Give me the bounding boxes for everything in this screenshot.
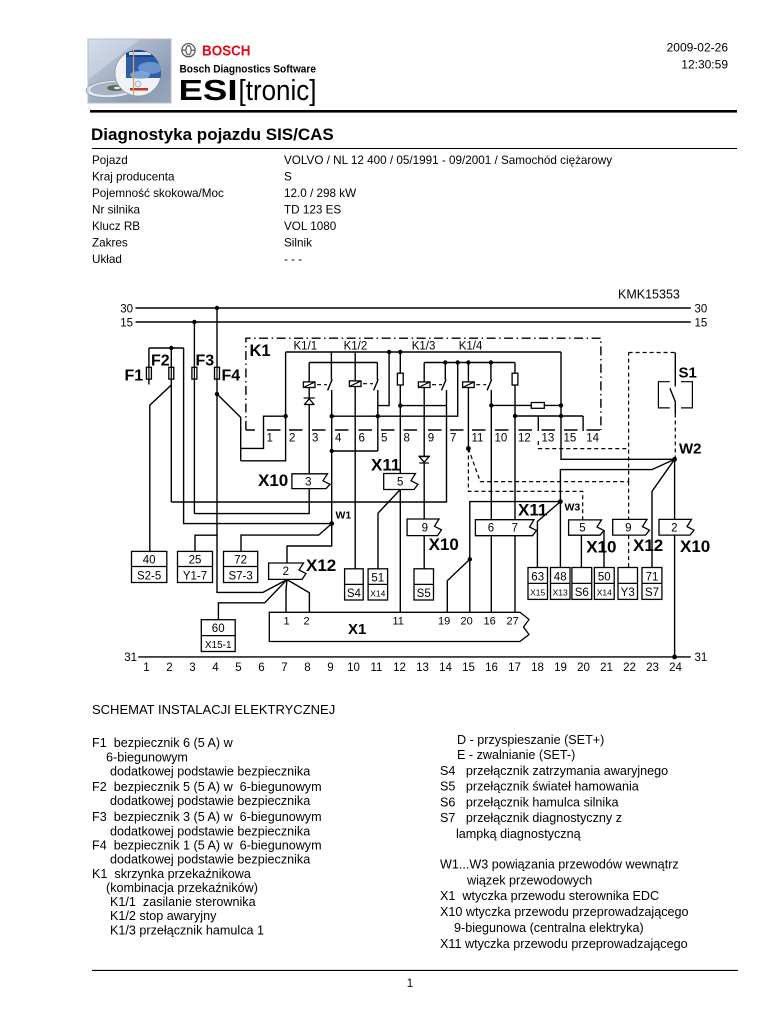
svg-text:X12: X12 xyxy=(306,556,336,575)
svg-text:BOSCH: BOSCH xyxy=(202,43,251,60)
svg-text:1: 1 xyxy=(267,433,273,445)
relay K1/1 contact xyxy=(286,352,333,416)
svg-text:3: 3 xyxy=(312,433,318,445)
wire rail B xyxy=(332,363,458,417)
svg-text:10: 10 xyxy=(495,433,508,445)
svg-text:12: 12 xyxy=(393,662,406,674)
node bus 31 xyxy=(672,655,677,660)
wire fan X12-2 to X1 pin 1 xyxy=(286,580,287,613)
svg-text:25: 25 xyxy=(189,555,202,567)
svg-text:[tronic]: [tronic] xyxy=(239,75,317,107)
svg-text:12: 12 xyxy=(518,433,531,445)
wire dashed pin 13 to S1 xyxy=(538,353,675,482)
svg-text:W1: W1 xyxy=(336,510,352,522)
wire pin 1 loop xyxy=(241,416,286,448)
wire flag X10-5 vertex to box 50 xyxy=(603,531,605,568)
svg-text:1: 1 xyxy=(284,615,290,627)
FOOTER xyxy=(92,969,738,971)
svg-text:S7 przełącznik diagnostyczny: S7 przełącznik diagnostyczny z xyxy=(440,811,622,825)
svg-text:F1: F1 xyxy=(125,368,144,385)
flag X10-3 xyxy=(292,474,330,489)
svg-text:K1/2: K1/2 xyxy=(344,341,368,353)
wire F2 line down to pin7 horizontal xyxy=(170,385,172,502)
svg-text:S2-5: S2-5 xyxy=(137,570,161,582)
svg-text:S4 przełącznik zatrzymania a: S4 przełącznik zatrzymania awaryjnego xyxy=(440,764,668,778)
flag X10-2 xyxy=(659,519,694,535)
svg-text:X10: X10 xyxy=(586,538,616,557)
component box 63 X15 xyxy=(528,568,548,600)
svg-text:D - przyspieszanie (SET+): D - przyspieszanie (SET+) xyxy=(457,733,604,747)
svg-text:14: 14 xyxy=(586,433,599,445)
svg-text:63: 63 xyxy=(531,571,544,583)
svg-text:16: 16 xyxy=(485,662,498,674)
svg-text:K1/1 zasilanie sterownika: K1/1 zasilanie sterownika xyxy=(110,895,256,909)
resistor pin 12 leg xyxy=(512,363,518,613)
svg-text:9: 9 xyxy=(422,522,428,534)
HEADER_TEXT xyxy=(179,41,729,108)
wire pin 9 diode chain xyxy=(418,456,430,569)
diode K1/1 xyxy=(304,398,315,405)
svg-text:Pojazd: Pojazd xyxy=(92,154,128,167)
wire pin 10 through flag X11-6 to X1 pin 16 xyxy=(490,536,492,613)
HEADER_PHOTO xyxy=(85,39,171,103)
svg-text:11: 11 xyxy=(472,433,484,445)
component box 51 X14 xyxy=(368,569,388,600)
svg-text:9: 9 xyxy=(428,433,434,445)
svg-text:S4: S4 xyxy=(347,588,362,600)
component box 71 S7 xyxy=(642,568,662,600)
svg-text:X15: X15 xyxy=(530,588,545,598)
svg-text:K1/3 przełącznik hamulca 1: K1/3 przełącznik hamulca 1 xyxy=(110,924,264,938)
svg-text:7: 7 xyxy=(450,433,456,445)
component box 72 S7-3 xyxy=(224,551,258,582)
wire F4 down between boxes to X12 fan xyxy=(217,394,287,592)
svg-text:30: 30 xyxy=(120,303,133,315)
svg-text:5: 5 xyxy=(381,433,387,445)
svg-text:K1/3: K1/3 xyxy=(412,341,436,353)
svg-text:60: 60 xyxy=(212,623,225,635)
svg-text:1: 1 xyxy=(407,978,413,990)
svg-text:Y3: Y3 xyxy=(621,587,635,599)
svg-text:X15-1: X15-1 xyxy=(205,640,232,651)
HEADER_RULE xyxy=(90,110,737,113)
svg-text:dodatkowej podstawie bezpieczn: dodatkowej podstawie bezpiecznika xyxy=(110,765,310,779)
svg-text:X10: X10 xyxy=(258,471,288,490)
svg-text:15: 15 xyxy=(695,317,708,329)
svg-text:Kraj producenta: Kraj producenta xyxy=(92,171,175,184)
component box S6 xyxy=(572,568,592,600)
wire rail B2 with pin13/14 stubs xyxy=(515,416,583,431)
svg-text:F2: F2 xyxy=(151,353,170,370)
K1 pin border dashes xyxy=(267,429,600,431)
svg-text:2: 2 xyxy=(166,662,172,674)
node K1/2 out crossing xyxy=(376,414,380,418)
svg-text:S5 przełącznik świateł hamow: S5 przełącznik świateł hamowania xyxy=(440,780,639,794)
wire F3 to X10 flag 3 xyxy=(194,489,309,514)
wire F2 to box 40 xyxy=(150,385,172,551)
node pin8 405 xyxy=(398,403,402,407)
svg-text:X14: X14 xyxy=(370,588,385,598)
svg-text:- - -: - - - xyxy=(284,253,302,266)
svg-text:20: 20 xyxy=(461,615,473,627)
svg-text:2: 2 xyxy=(289,433,295,445)
svg-text:14: 14 xyxy=(439,662,452,674)
svg-text:5: 5 xyxy=(579,522,585,534)
svg-text:Bosch Diagnostics Software: Bosch Diagnostics Software xyxy=(180,64,317,76)
bus 30 xyxy=(120,303,707,315)
svg-text:71: 71 xyxy=(646,571,659,583)
svg-text:SCHEMAT INSTALACJI ELEKTRYCZNE: SCHEMAT INSTALACJI ELEKTRYCZNEJ xyxy=(92,702,335,717)
node W1 xyxy=(329,510,351,526)
component box 50 X14 xyxy=(594,568,614,600)
svg-text:8: 8 xyxy=(404,433,410,445)
svg-text:(kombinacja przekaźników): (kombinacja przekaźników) xyxy=(106,881,258,895)
node F4 split xyxy=(215,392,219,396)
wire pin 6 to box S4 xyxy=(354,387,356,569)
component box 60 X15-1 xyxy=(201,620,235,652)
wire flag X11-5 to X1 pin 11 xyxy=(399,490,401,613)
svg-text:F2 bezpiecznik 5 (5 A) w 6-b: F2 bezpiecznik 5 (5 A) w 6-biegunowym xyxy=(92,780,322,794)
flag X12-9 xyxy=(613,519,650,535)
svg-text:6: 6 xyxy=(258,662,264,674)
svg-text:50: 50 xyxy=(598,571,611,583)
svg-text:F4 bezpiecznik 1 (5 A) w 6-b: F4 bezpiecznik 1 (5 A) w 6-biegunowym xyxy=(92,839,322,853)
svg-text:X14: X14 xyxy=(597,588,612,598)
node W3 xyxy=(558,499,580,513)
wire W1 to box 72 xyxy=(241,524,332,552)
BOSCH_LOGO xyxy=(182,43,251,60)
bus 31 xyxy=(124,652,707,664)
wire fork to X1 pin 19 xyxy=(447,559,470,612)
fuse F4 xyxy=(215,308,241,394)
svg-text:VOLVO / NL 12 400 / 05/1991 -: VOLVO / NL 12 400 / 05/1991 - 09/2001 / … xyxy=(284,154,612,167)
wire coil rail left xyxy=(309,362,377,364)
svg-text:7: 7 xyxy=(512,523,518,535)
svg-text:4: 4 xyxy=(335,433,342,445)
svg-text:22: 22 xyxy=(623,662,636,674)
node rail K1/3 contact xyxy=(443,360,447,364)
svg-text:40: 40 xyxy=(143,555,156,567)
svg-text:X12: X12 xyxy=(633,536,663,555)
svg-text:Silnik: Silnik xyxy=(284,237,312,250)
relay K1/1 coil xyxy=(303,363,327,398)
wire flag X11-5 to box 51 xyxy=(378,490,400,569)
svg-text:3: 3 xyxy=(305,477,311,489)
wire pin 4 down to W1 xyxy=(331,416,333,523)
svg-text:Nr silnika: Nr silnika xyxy=(92,204,141,217)
svg-text:X11: X11 xyxy=(371,456,400,475)
wire pin 3 to flag X10-3 xyxy=(308,405,310,474)
connector X1 xyxy=(269,612,529,641)
relay box K1 (dash-dot) xyxy=(246,338,601,430)
LEGEND_RIGHT xyxy=(440,733,689,951)
svg-text:S: S xyxy=(284,171,292,184)
relay K1/3 contact xyxy=(442,363,447,391)
wire fan X12-2 to X1 pin 2 xyxy=(287,580,309,613)
wire top contact rail xyxy=(286,351,561,353)
node rail link down xyxy=(456,360,460,364)
relay K1/3 coil xyxy=(418,363,442,457)
svg-text:8: 8 xyxy=(304,662,310,674)
wire W2 to box 71 xyxy=(652,459,675,567)
component box 40 S2-5 xyxy=(132,551,167,582)
K1 pin numbers xyxy=(267,433,600,445)
flag X11-6-7 xyxy=(475,520,536,536)
svg-text:K1 skrzynka przekaźnikowa: K1 skrzynka przekaźnikowa xyxy=(92,867,251,881)
wire dashed pin 11 to flag X12-9 xyxy=(468,449,628,568)
svg-text:6: 6 xyxy=(488,523,494,535)
svg-text:Diagnostyka pojazdu SIS/CAS: Diagnostyka pojazdu SIS/CAS xyxy=(91,125,334,144)
svg-text:dodatkowej podstawie bezpieczn: dodatkowej podstawie bezpiecznika xyxy=(110,825,310,839)
svg-text:12:30:59: 12:30:59 xyxy=(681,58,728,72)
svg-text:9: 9 xyxy=(625,522,631,534)
svg-text:S5: S5 xyxy=(417,588,431,600)
svg-text:13: 13 xyxy=(416,662,429,674)
node pin12 416 xyxy=(513,414,517,418)
svg-text:W1...W3 powiązania przewodów w: W1...W3 powiązania przewodów wewnątrz xyxy=(440,858,679,872)
svg-text:2009-02-26: 2009-02-26 xyxy=(667,41,729,55)
svg-text:X10: X10 xyxy=(429,535,459,554)
relay K1/4 contact xyxy=(487,363,492,520)
component box Y3 xyxy=(618,568,638,600)
node on bus 30 (F4 tap) xyxy=(215,306,219,310)
wire bridge pins 4-5 xyxy=(332,450,378,452)
svg-text:S7: S7 xyxy=(645,587,659,599)
flag X10-5 xyxy=(569,520,604,535)
svg-text:15: 15 xyxy=(564,433,577,445)
relay K1/4 coil xyxy=(463,363,487,449)
svg-text:48: 48 xyxy=(554,571,567,583)
svg-text:23: 23 xyxy=(646,662,659,674)
svg-text:6-biegunowym: 6-biegunowym xyxy=(106,751,188,765)
relay K1/2 coil xyxy=(349,352,373,387)
svg-text:K1/2 stop awaryjny: K1/2 stop awaryjny xyxy=(110,909,217,923)
svg-text:Układ: Układ xyxy=(92,253,122,266)
svg-text:F3: F3 xyxy=(196,353,215,370)
svg-text:10: 10 xyxy=(347,662,360,674)
switch S1 xyxy=(658,353,696,458)
svg-text:3: 3 xyxy=(189,662,195,674)
node F2 top xyxy=(169,346,173,350)
node pin 4 rail xyxy=(330,414,334,418)
svg-text:18: 18 xyxy=(531,662,544,674)
wire long horizontal to K1 pin 7 xyxy=(171,390,446,502)
relay K1/2 contact xyxy=(374,352,390,451)
svg-text:F3 bezpiecznik 3 (5 A) w 6-b: F3 bezpiecznik 3 (5 A) w 6-biegunowym xyxy=(92,810,322,824)
wire link 405 to K1/3 out xyxy=(400,405,446,407)
svg-text:dodatkowej podstawie bezpieczn: dodatkowej podstawie bezpiecznika xyxy=(110,853,310,867)
node fork 19/20 xyxy=(468,557,472,561)
svg-text:ESI: ESI xyxy=(179,75,238,107)
svg-text:51: 51 xyxy=(371,572,384,584)
svg-text:K1/1: K1/1 xyxy=(294,341,318,353)
svg-text:24: 24 xyxy=(669,662,682,674)
component box S4 xyxy=(345,569,364,600)
wire W2 through flag X10-2 to bus 31 xyxy=(674,459,676,657)
svg-text:S6 przełącznik hamulca silni: S6 przełącznik hamulca silnika xyxy=(440,796,619,810)
svg-text:dodatkowej podstawie bezpieczn: dodatkowej podstawie bezpiecznika xyxy=(110,794,310,808)
fuse F2 xyxy=(151,348,174,385)
wire tap to box 25 xyxy=(195,535,217,551)
bus 31 terminal numbers xyxy=(143,662,682,674)
wire bar right leg down to W1 xyxy=(184,348,332,524)
svg-text:Pojemność skokowa/Moc: Pojemność skokowa/Moc xyxy=(92,187,224,200)
wire flag X10-5 to box S6 xyxy=(580,535,582,567)
resistor horizontal xyxy=(491,403,561,409)
svg-text:31: 31 xyxy=(695,652,708,664)
svg-text:TD 123 ES: TD 123 ES xyxy=(284,204,341,217)
svg-text:Y1-7: Y1-7 xyxy=(183,570,207,582)
node rail K1/4 contact xyxy=(489,360,493,364)
svg-text:19: 19 xyxy=(554,662,567,674)
node rail K1/2 out xyxy=(387,350,391,354)
node 561 405 xyxy=(559,403,563,407)
svg-text:Klucz RB: Klucz RB xyxy=(92,220,140,233)
svg-text:4: 4 xyxy=(212,662,219,674)
svg-text:11: 11 xyxy=(371,662,383,674)
node bridge pin 4 xyxy=(330,449,334,453)
node pin 11 xyxy=(466,446,471,451)
svg-text:Zakres: Zakres xyxy=(92,237,128,250)
node K1/4 out xyxy=(489,403,493,407)
flag X11-5 xyxy=(384,474,418,490)
svg-text:21: 21 xyxy=(600,662,613,674)
svg-text:31: 31 xyxy=(124,652,137,664)
node on bus 15 (F3 tap) xyxy=(192,320,196,324)
svg-text:19: 19 xyxy=(438,615,450,627)
svg-text:72: 72 xyxy=(234,555,247,567)
svg-text:27: 27 xyxy=(507,615,519,627)
flag X12-2 xyxy=(269,563,306,579)
svg-text:9: 9 xyxy=(327,662,333,674)
svg-text:16: 16 xyxy=(484,615,496,627)
svg-text:2: 2 xyxy=(283,566,289,578)
svg-text:S6: S6 xyxy=(575,587,589,599)
svg-text:W3: W3 xyxy=(565,502,581,514)
resistor pin 8 leg xyxy=(397,352,403,474)
node W2 xyxy=(672,441,701,462)
component box 25 Y1-7 xyxy=(178,551,213,582)
node pin 2 rail xyxy=(283,414,287,418)
svg-text:7: 7 xyxy=(281,662,287,674)
svg-text:12.0 / 298 kW: 12.0 / 298 kW xyxy=(284,187,356,200)
svg-text:1: 1 xyxy=(143,662,149,674)
svg-text:F4: F4 xyxy=(222,368,241,385)
svg-text:VOL 1080: VOL 1080 xyxy=(284,220,337,233)
svg-text:2: 2 xyxy=(304,615,310,627)
flag X10-9 xyxy=(407,519,441,536)
svg-text:15: 15 xyxy=(120,317,133,329)
svg-text:5: 5 xyxy=(397,477,403,489)
wire W2 to W3 riser xyxy=(560,459,674,501)
svg-text:11: 11 xyxy=(393,615,404,627)
svg-text:9-biegunowa (centralna elektry: 9-biegunowa (centralna elektryka) xyxy=(454,921,644,935)
wire coil rail right xyxy=(424,362,515,364)
node pin15 416 xyxy=(559,414,563,418)
svg-text:E - zwalnianie (SET-): E - zwalnianie (SET-) xyxy=(457,748,575,762)
svg-text:30: 30 xyxy=(695,303,708,315)
svg-text:13: 13 xyxy=(542,433,555,445)
svg-text:W2: W2 xyxy=(679,441,702,458)
svg-text:KMK15353: KMK15353 xyxy=(618,288,680,302)
svg-text:F1 bezpiecznik 6 (5 A) w: F1 bezpiecznik 6 (5 A) w xyxy=(92,736,234,750)
wire W3 to box 48 xyxy=(559,502,561,568)
fuse F1 xyxy=(125,348,152,385)
svg-text:X10 wtyczka przewodu przeprowa: X10 wtyczka przewodu przeprowadzającego xyxy=(440,905,689,919)
svg-text:K1/4: K1/4 xyxy=(459,341,483,353)
svg-text:X13: X13 xyxy=(553,588,568,598)
LEGEND_LEFT xyxy=(92,736,322,938)
svg-text:20: 20 xyxy=(577,662,590,674)
svg-text:X10: X10 xyxy=(680,537,710,556)
bus 15 xyxy=(120,317,707,329)
svg-text:X1: X1 xyxy=(348,621,366,638)
node rail pin8 resistor xyxy=(398,350,402,354)
svg-text:2: 2 xyxy=(671,522,677,534)
svg-text:S7-3: S7-3 xyxy=(228,570,252,582)
wire F4 diagonal into K1 pins 1/2 xyxy=(217,394,241,461)
wire pin 2 loop xyxy=(241,416,286,461)
svg-text:X11 wtyczka przewodu przeprowa: X11 wtyczka przewodu przeprowadzającego xyxy=(440,937,688,951)
INFO_TABLE xyxy=(92,154,612,266)
svg-text:17: 17 xyxy=(508,662,521,674)
svg-text:K1: K1 xyxy=(250,342,271,360)
wire pin 15 line to W2 xyxy=(561,352,675,459)
wire fan X12-2 to box 60 xyxy=(218,580,287,620)
svg-text:wiązek przewodowych: wiązek przewodowych xyxy=(466,874,592,888)
wire W3 left to X1 pins 19/20 xyxy=(470,502,561,613)
svg-text:X1 wtyczka przewodu sterownik: X1 wtyczka przewodu sterownika EDC xyxy=(440,889,659,903)
wire W1 to flag X12-2 xyxy=(287,524,332,563)
svg-text:5: 5 xyxy=(235,662,241,674)
component box S5 xyxy=(414,569,434,600)
svg-text:X11: X11 xyxy=(518,501,547,520)
wire bar above F1/F2 xyxy=(149,347,184,349)
svg-text:6: 6 xyxy=(359,433,365,445)
svg-text:lampką diagnostyczną: lampką diagnostyczną xyxy=(456,827,581,841)
component box 48 X13 xyxy=(551,568,571,600)
node rail K1/4 coil xyxy=(466,360,470,364)
fuse F3 xyxy=(192,322,214,514)
wire dashed pin 11 to flag X10-5 xyxy=(468,449,582,520)
wire W3 to box 63 xyxy=(537,502,560,568)
svg-text:S1: S1 xyxy=(679,365,697,382)
svg-text:15: 15 xyxy=(462,662,475,674)
